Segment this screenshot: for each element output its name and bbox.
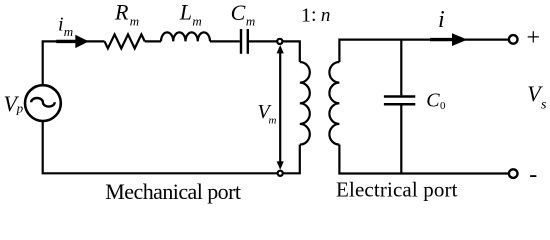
AC source sine wave — [31, 98, 55, 107]
node circle V_m top — [277, 39, 282, 44]
capacitor C_m right plate — [247, 29, 249, 54]
transformer primary winding — [300, 62, 310, 145]
voltage arrow V_m bottom head — [277, 161, 284, 169]
svg-text:i: i — [438, 7, 445, 33]
current arrow i_m tail — [56, 40, 76, 43]
output terminal bottom circle — [509, 169, 518, 178]
wire transformer secondary bottom to output terminal — [339, 145, 509, 174]
svg-text:0: 0 — [440, 100, 446, 112]
capacitor C_0 top lead — [400, 40, 402, 96]
svg-text:p: p — [16, 100, 24, 115]
capacitor C_0 bottom plate — [384, 103, 415, 106]
transformer secondary winding — [329, 62, 339, 145]
capacitor C_m left plate — [240, 29, 242, 54]
svg-text:n: n — [321, 5, 331, 26]
svg-text:m: m — [269, 115, 277, 127]
voltage arrow V_m top head — [277, 45, 284, 53]
capacitor C_0 bottom lead — [400, 105, 402, 173]
inductor L_m — [161, 32, 210, 41]
current arrow i head — [452, 33, 467, 46]
wire between inductor and capacitor — [210, 40, 240, 42]
svg-text:m: m — [64, 24, 73, 39]
svg-text:m: m — [246, 14, 255, 29]
svg-text:L: L — [179, 0, 192, 25]
current arrow i_m head — [75, 35, 89, 48]
wire between resistor and inductor — [145, 40, 161, 42]
svg-text:s: s — [541, 97, 547, 112]
node circle V_m bottom — [278, 171, 283, 176]
svg-text:R: R — [114, 0, 129, 25]
svg-text:C: C — [231, 0, 246, 25]
capacitor C_0 top plate — [384, 95, 415, 98]
wire transformer secondary top to output terminal — [339, 40, 509, 62]
AC voltage source V_p circle — [25, 85, 61, 121]
svg-text:1: 1 — [301, 5, 311, 27]
svg-text:Mechanical port: Mechanical port — [105, 179, 241, 204]
svg-text:m: m — [130, 14, 139, 29]
output terminal top circle — [509, 35, 518, 44]
wire capacitor to transformer primary top — [249, 41, 300, 62]
svg-text:-: - — [529, 162, 537, 188]
svg-text:i: i — [58, 14, 64, 36]
svg-text:C: C — [426, 89, 440, 111]
svg-text:Electrical port: Electrical port — [336, 178, 458, 202]
wire top rail left segment and left vertical to source top — [43, 41, 105, 85]
svg-text::: : — [311, 4, 317, 26]
svg-text:+: + — [527, 25, 541, 51]
wire transformer primary bottom and bottom rail left — [43, 121, 300, 173]
resistor R_m — [105, 34, 145, 48]
voltage arrow V_m line — [279, 48, 281, 167]
svg-text:m: m — [192, 14, 201, 29]
current arrow i tail — [430, 38, 453, 41]
